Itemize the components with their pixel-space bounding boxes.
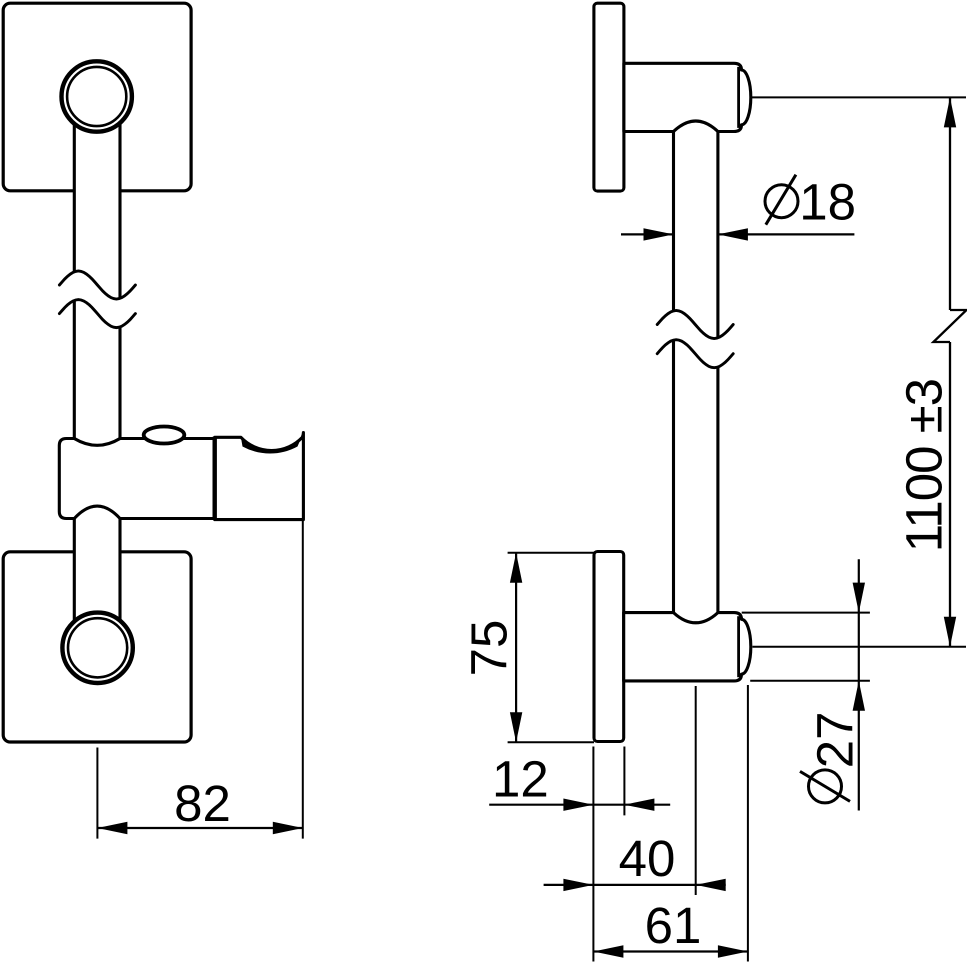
bracket cap rim, bottom (737, 616, 740, 677)
slide bar, front view (74, 98, 120, 650)
wall bracket, side view, top (624, 63, 751, 131)
dimension 40 extension line (695, 686, 697, 895)
dimension 40 line (544, 884, 726, 886)
dimension 61 line (593, 950, 748, 952)
dimension 12 extension lines (592, 747, 594, 962)
svg-text:40: 40 (619, 830, 676, 887)
slider body, front view (59, 439, 214, 519)
dimension D27 extension lines (742, 612, 870, 614)
wall plate, front view, bottom (3, 552, 191, 742)
dimension 61 extension line (747, 685, 749, 962)
wall plate, side view, bottom (594, 552, 624, 742)
svg-text:27: 27 (806, 711, 863, 768)
dimension 12 line (489, 804, 670, 806)
dimension D27 label: diameter symbol (809, 770, 842, 803)
dimension D27 line (858, 559, 860, 810)
wire (59, 300, 135, 328)
escutcheon ring, bottom plate (62, 613, 132, 683)
slider divider (212, 437, 216, 520)
svg-text:1100 ±3: 1100 ±3 (896, 379, 953, 552)
break symbol, side view bar (657, 311, 733, 339)
dimension 1100 extension lines (752, 96, 966, 98)
holder lip crescent (241, 433, 304, 454)
dimension D18 label: diameter symbol (765, 185, 798, 218)
svg-text:12: 12 (492, 751, 549, 808)
slider lock button (144, 427, 185, 444)
break symbol, front view bar (59, 271, 135, 299)
wire (657, 340, 733, 368)
dimension 82 line (97, 827, 302, 829)
wall plate, side view, top (594, 3, 624, 191)
dimension 75 extension lines (508, 552, 594, 554)
svg-text:18: 18 (799, 174, 856, 231)
wall bracket, side view, bottom (624, 613, 751, 681)
bracket cap rim, top (737, 67, 740, 128)
slide bar, side view (674, 120, 718, 636)
svg-text:82: 82 (174, 775, 231, 832)
svg-text:75: 75 (461, 620, 518, 677)
handset holder, front view (215, 433, 304, 520)
dimension 82 extension lines (96, 748, 98, 839)
dimension 75 line (515, 553, 517, 743)
svg-text:61: 61 (645, 897, 702, 954)
wall plate, front view, top (3, 3, 191, 191)
dimension D18 lines (621, 233, 674, 235)
dimension 1100 line with break (949, 97, 951, 310)
escutcheon ring, top plate (61, 61, 131, 131)
